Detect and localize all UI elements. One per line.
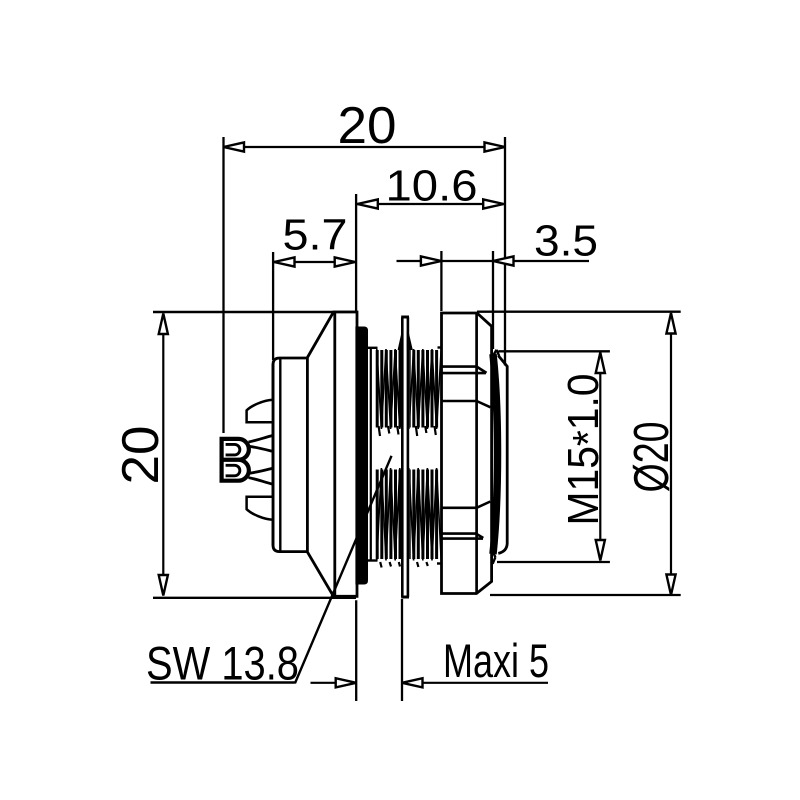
solder cup 1 outer (222, 439, 249, 460)
dimension M15*1.0: arrow top (596, 353, 605, 374)
dimension 3.5: arrow left (421, 256, 442, 265)
dimension 5.7: arrow left (274, 257, 295, 266)
dimension 20 top: arrow right (485, 142, 506, 151)
flange (307, 312, 357, 596)
svg-text:20: 20 (338, 97, 397, 155)
dimension 20 top: dimension line (224, 146, 506, 148)
insulator block (273, 358, 307, 552)
mounting washer plate bottom cap (401, 596, 409, 599)
dimension 10.6: arrow right (483, 199, 504, 208)
dimension 20 left: extension line top (153, 311, 357, 313)
hex nut face line bottom 2 (442, 534, 484, 538)
insulator block inner face line (279, 358, 281, 552)
dimension 20 left: arrow bottom (159, 575, 168, 596)
thread crest link bottom left (367, 559, 378, 561)
solder tab bottom (247, 497, 273, 520)
hex nut face line bottom 3 (442, 502, 491, 508)
thread crest wedge right of plate (407, 331, 413, 350)
solder tab upper-middle (249, 436, 273, 452)
solder cup 2 inner (226, 465, 240, 476)
dimension 3.5: extension line right (492, 251, 494, 349)
solder tab top (247, 400, 273, 423)
dimension dia 20: extension line bottom (490, 594, 681, 596)
dimension Maxi 5: extension line right (401, 599, 403, 701)
svg-text:Maxi 5: Maxi 5 (443, 634, 549, 687)
gasket (black seal ring) (355, 327, 368, 585)
dimension 3.5: extension line left (440, 251, 442, 311)
dimension dia 20: arrow bottom (666, 575, 675, 596)
dimension Maxi 5: extension line left (355, 600, 357, 701)
dimension 5.7: arrow right (335, 257, 356, 266)
thread crest link top left (367, 347, 378, 349)
thread crest wedge left of plate (398, 331, 404, 350)
dimension Maxi 5: dimension line right tail (402, 682, 548, 684)
dimension 20 left: extension line bottom (153, 597, 356, 599)
hex nut face line bottom 1 (442, 537, 484, 540)
hex nut rim arc top tip (492, 350, 499, 358)
dimension 3.5: dimension line with tails (397, 260, 590, 262)
dimension Maxi 5: arrow left (336, 678, 357, 687)
hex nut rim arc (493, 354, 498, 554)
mounting washer plate top cap (401, 316, 409, 319)
dimension 20 left: dimension line (162, 314, 164, 596)
dimension 20 top: extension line right (504, 137, 506, 366)
thread relief groove line (370, 348, 372, 561)
svg-text:3.5: 3.5 (534, 217, 598, 266)
dimension 10.6: dimension line (356, 203, 503, 205)
mounting washer plate left edge (401, 317, 404, 597)
hex nut rim arc bottom tip (492, 550, 496, 564)
label SW 13.8 underline (151, 681, 295, 683)
dimension Maxi 5: arrow right (402, 678, 423, 687)
rear shell profile (498, 356, 507, 554)
dimension M15*1.0: extension line bottom (497, 561, 610, 563)
dimension dia 20: dimension line (670, 313, 672, 595)
svg-text:M15*1.0: M15*1.0 (559, 374, 613, 526)
flange face edge line (333, 312, 336, 596)
dimension dia 20: extension line top (477, 311, 681, 313)
dimension 5.7: dimension line (274, 261, 356, 263)
thread tips upper band (379, 426, 436, 436)
insulator block left edge redraw (272, 364, 275, 546)
dimension 5.7: extension line left (272, 252, 274, 360)
dimension 10.6: extension line left (355, 194, 357, 312)
solder tab lower-middle (249, 468, 273, 484)
dimension 10.6: arrow left (357, 199, 378, 208)
solder cup 2 outer (222, 460, 249, 481)
thread tips lower band (380, 562, 428, 568)
svg-text:SW 13.8: SW 13.8 (146, 637, 299, 690)
svg-text:10.6: 10.6 (386, 162, 478, 211)
dimension dia 20: arrow top (666, 313, 675, 334)
hex nut face line top 2 (442, 372, 486, 375)
dimension 20 top: arrow left (224, 142, 245, 151)
thread zigzag upper band (377, 350, 436, 428)
svg-text:20: 20 (112, 426, 170, 485)
mounting washer plate fill (401, 317, 409, 598)
dimension Maxi 5: dimension line left tail (311, 682, 357, 684)
dimension M15*1.0: arrow bottom (596, 540, 605, 561)
thread zigzag lower band (377, 470, 436, 560)
leader SW 13.8 (295, 456, 392, 684)
hex nut outline (442, 313, 492, 594)
dimension M15*1.0: extension line top (499, 350, 610, 352)
dimension 3.5: arrow right (493, 256, 514, 265)
dimension 20 top: extension line left (222, 137, 224, 433)
thread crest link bottom right (437, 562, 442, 564)
mounting washer plate right edge (407, 317, 410, 597)
thread crest link top right (438, 346, 442, 348)
svg-text:5.7: 5.7 (283, 211, 348, 260)
svg-text:Ø20: Ø20 (625, 422, 679, 493)
hex nut face line top 3 (442, 401, 491, 407)
hex nut corner edge (475, 313, 478, 594)
hex nut face line top 1 (442, 367, 487, 373)
solder cup 1 inner (226, 444, 240, 455)
dimension M15*1.0: dimension line (599, 353, 601, 561)
dimension 20 left: arrow top (159, 314, 168, 335)
